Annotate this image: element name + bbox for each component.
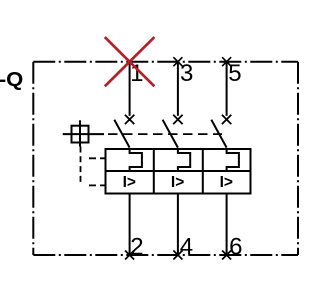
actuator linkage dashed stub to magnetic row: [89, 184, 106, 186]
contact lever pole 1: [114, 120, 129, 148]
svg-text:4: 4: [180, 233, 193, 260]
terminal 4 x-mark on border: [173, 251, 182, 260]
wire pole 3 top (terminal 5 to contact): [226, 62, 228, 116]
breaker contact x pole 3: [222, 115, 231, 124]
breaker contact x pole 2: [173, 115, 182, 124]
svg-text:2: 2: [130, 233, 143, 260]
terminal 3 x-mark on border: [173, 57, 182, 66]
actuator linkage dashed vertical: [80, 147, 82, 186]
terminal 6 x-mark on border: [222, 251, 231, 260]
svg-text:I>: I>: [171, 174, 184, 191]
svg-text:3: 3: [180, 60, 193, 87]
wire pole 1 top (terminal 1 to contact): [129, 62, 131, 116]
svg-text:5: 5: [228, 60, 241, 87]
wire pole 2 top (terminal 3 to contact): [177, 62, 179, 116]
trip unit box column divider 1: [153, 149, 155, 194]
wire pole 2 bottom (box to terminal 4): [177, 194, 179, 256]
actuator linkage dashed stub to thermal row: [89, 157, 106, 159]
mechanical linkage dashed line (poles coupling): [108, 133, 222, 135]
contact lever pole 3: [211, 120, 226, 148]
svg-text:I>: I>: [123, 174, 136, 191]
thermal overload element pole 1: [130, 149, 142, 171]
trip unit box row divider: [106, 170, 251, 172]
wire pole 1 bottom (box to terminal 2): [129, 194, 131, 256]
red deletion cross over terminal 1: [105, 37, 155, 86]
terminal 2 x-mark on border: [125, 251, 134, 260]
wire pole 3 bottom (box to terminal 6): [226, 194, 228, 256]
enclosure border (phantom dash-dot rectangle): [33, 62, 298, 255]
trip unit box outline: [106, 149, 251, 194]
trip unit box column divider 2: [202, 149, 204, 194]
terminal 1 x-mark on border: [125, 57, 134, 66]
breaker contact x pole 1: [125, 115, 134, 124]
contact lever pole 2: [163, 120, 178, 148]
manual rotary actuator symbol: [63, 120, 104, 146]
thermal overload element pole 2: [178, 149, 190, 171]
svg-text:I>: I>: [220, 174, 233, 191]
svg-text:-Q: -Q: [0, 68, 23, 91]
terminal 5 x-mark on border: [222, 57, 231, 66]
svg-text:6: 6: [229, 233, 242, 260]
thermal overload element pole 3: [227, 149, 239, 171]
